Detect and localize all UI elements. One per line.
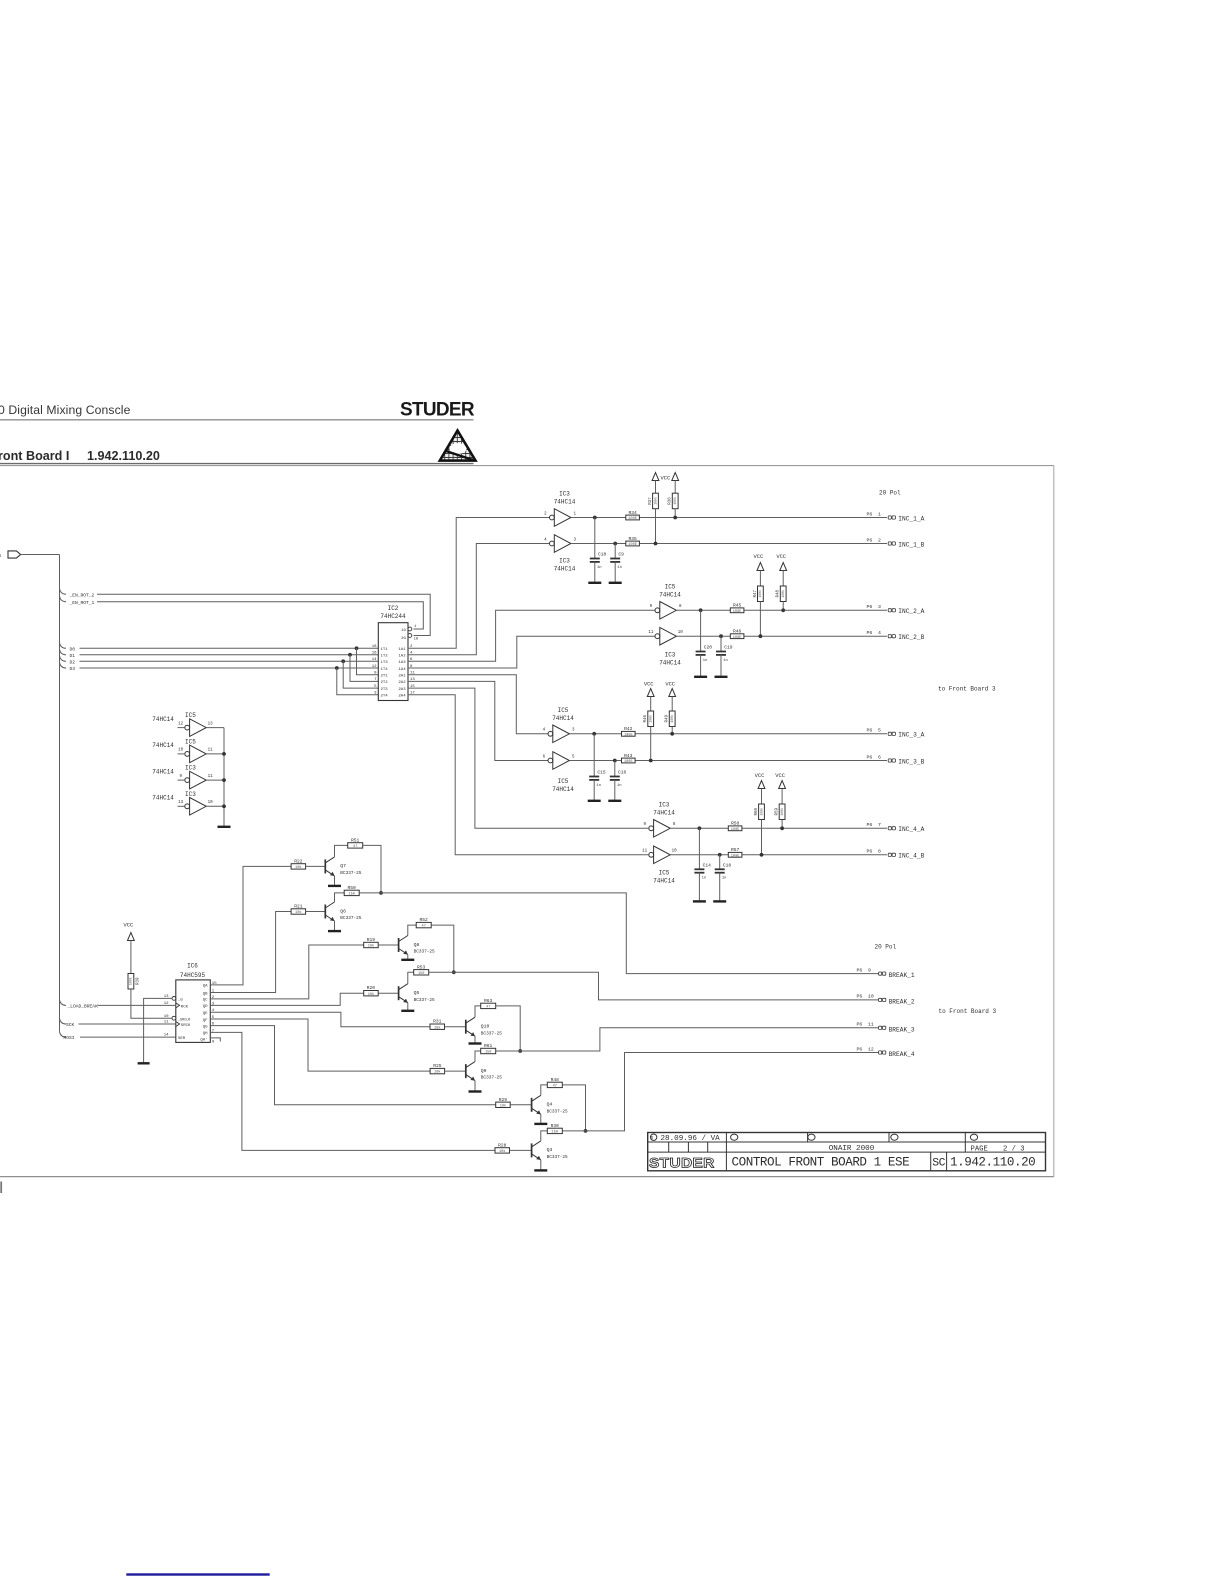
wire _LOAD_BREAK to RCK xyxy=(98,1004,176,1006)
wire R19 to base of Q8 xyxy=(378,944,398,946)
svg-text:VCC: VCC xyxy=(754,554,764,560)
wire BREAK_3 node to connector xyxy=(496,1028,879,1051)
svg-text:BC337-25: BC337-25 xyxy=(547,1109,568,1114)
svg-text:R34: R34 xyxy=(628,510,637,516)
resistor R34 100E in line INC_1_A xyxy=(626,515,640,520)
wire R22 to base of Q7 xyxy=(306,865,326,867)
svg-text:IC3: IC3 xyxy=(185,765,196,772)
wire _EN_ROT_1 to IC2 1G xyxy=(97,602,423,629)
resistor R51 47 collector of Q7 xyxy=(348,843,363,848)
svg-text:P6: P6 xyxy=(867,822,873,828)
wire IC6 QH to R28 xyxy=(210,1032,495,1150)
svg-text:20 Pol: 20 Pol xyxy=(875,944,897,951)
svg-text:R30: R30 xyxy=(551,1123,560,1129)
svg-text:BC337-25: BC337-25 xyxy=(481,1031,502,1036)
svg-text:1.942.110.20: 1.942.110.20 xyxy=(87,449,160,463)
svg-text:QH: QH xyxy=(203,1032,208,1036)
resistor R19 10k base of Q8 xyxy=(364,942,379,947)
svg-text:47: 47 xyxy=(422,925,426,929)
wire R51 down to break node xyxy=(363,845,381,893)
svg-text:R61: R61 xyxy=(484,1043,493,1049)
wire IC6 QG to R29 xyxy=(210,1026,495,1105)
svg-text:1n: 1n xyxy=(702,877,707,881)
svg-text:IC5: IC5 xyxy=(558,778,569,785)
svg-text:IC5: IC5 xyxy=(659,870,670,877)
transistor Q4 BC337-25 xyxy=(531,1098,533,1112)
svg-text:100E: 100E xyxy=(624,733,633,737)
svg-text:10k: 10k xyxy=(368,944,374,949)
svg-text:1A4: 1A4 xyxy=(398,668,406,672)
svg-text:_G: _G xyxy=(177,999,183,1003)
svg-text:74HC14: 74HC14 xyxy=(552,715,574,722)
resistor R45 100E in line INC_2_A xyxy=(730,608,744,613)
svg-text:INC_3_A: INC_3_A xyxy=(898,732,924,739)
resistor R31 10k base of Q10 xyxy=(430,1024,445,1029)
svg-text:Q7: Q7 xyxy=(340,863,346,869)
svg-text:2G: 2G xyxy=(401,637,406,641)
wire IC2 1A2 output to gate IC3b input (INC_1_B) xyxy=(408,544,550,655)
title block revision cells row1 xyxy=(807,1133,809,1143)
svg-text:10: 10 xyxy=(208,801,214,805)
junction cap C9 on line B xyxy=(613,542,617,546)
VCC arrow left group 1 xyxy=(652,473,659,481)
wire IC2 1A1 output to gate IC3a input (INC_1_A) xyxy=(408,518,550,649)
svg-text:BREAK_3: BREAK_3 xyxy=(889,1026,915,1033)
wire collector Q10 to R63 xyxy=(475,1006,481,1017)
svg-text:74HC14: 74HC14 xyxy=(152,742,174,749)
svg-text:Q3: Q3 xyxy=(547,1147,553,1153)
svg-text:5: 5 xyxy=(878,728,881,734)
connector pad P6_4 xyxy=(888,635,891,638)
svg-text:R58: R58 xyxy=(731,821,740,827)
resistor R36 100k pull-up INC_1_A xyxy=(672,493,678,509)
bus tap _EN_ROT_2 xyxy=(60,589,67,595)
svg-text:1n: 1n xyxy=(597,566,602,570)
wire R63 down to break node xyxy=(496,1006,521,1051)
wire R21 to base of Q6 xyxy=(306,911,326,913)
resistor R52 47 collector of Q8 xyxy=(416,922,431,927)
svg-text:C10: C10 xyxy=(598,552,607,558)
wire pull-up R48 to line A xyxy=(782,602,784,611)
svg-text:RCK: RCK xyxy=(181,1005,189,1009)
wire INC_3_B line gate output to connector xyxy=(569,760,887,762)
svg-text:_LOAD_BREAK: _LOAD_BREAK xyxy=(67,1004,99,1010)
svg-text:BC337-25: BC337-25 xyxy=(481,1076,502,1081)
svg-text:10k: 10k xyxy=(295,910,301,915)
svg-text:R53: R53 xyxy=(417,964,426,970)
svg-text:11: 11 xyxy=(642,850,648,854)
svg-text:74HC14: 74HC14 xyxy=(152,716,174,723)
wire pull-up R59 to line A xyxy=(781,820,783,829)
wire collector Q8 to R52 xyxy=(408,925,416,935)
svg-text:_SRCLR: _SRCLR xyxy=(177,1018,190,1022)
transistor Q10 BC337-25 xyxy=(465,1020,467,1034)
junction pull-up R60 line B xyxy=(760,853,764,857)
wire R48 down to break node xyxy=(562,1085,585,1131)
connector flag IIC input (left-cropped) xyxy=(8,551,21,558)
svg-text:ONAIR 2000: ONAIR 2000 xyxy=(829,1145,875,1153)
svg-text:74HC14: 74HC14 xyxy=(653,810,675,817)
ESD warning triangle symbol xyxy=(439,431,476,462)
svg-text:100k: 100k xyxy=(129,977,133,985)
connector pad P6_10 xyxy=(879,998,882,1001)
bus tap SCK xyxy=(60,1019,67,1025)
svg-text:to Front Board 3: to Front Board 3 xyxy=(939,1008,997,1015)
bus tap MOSI xyxy=(60,1032,67,1038)
svg-text:1n: 1n xyxy=(723,659,728,663)
connector pad P6_12 xyxy=(879,1051,882,1054)
svg-text:BREAK_1: BREAK_1 xyxy=(889,972,915,979)
IC6 pin 12 RCK clock input xyxy=(176,1003,180,1008)
svg-text:PAGE: PAGE xyxy=(971,1145,988,1153)
wire BREAK_1 node to connector xyxy=(359,893,878,974)
wire IC2 2A4 output to gate IC5d input (INC_4_B) xyxy=(408,695,648,855)
connector pad P6_6 xyxy=(888,759,891,762)
svg-text:to Front Board 3: to Front Board 3 xyxy=(938,686,996,693)
ground emitter Q3 xyxy=(540,1160,542,1170)
svg-text:3: 3 xyxy=(878,604,881,610)
resistor R39 100k pull-up _SRCLR xyxy=(128,974,134,990)
svg-text:6: 6 xyxy=(878,754,881,760)
wire IC6 QF to R25 xyxy=(210,1019,430,1071)
svg-text:100E: 100E xyxy=(628,517,637,521)
svg-text:1G: 1G xyxy=(401,629,406,633)
svg-text:P6: P6 xyxy=(857,994,863,1000)
svg-text:74HC14: 74HC14 xyxy=(659,660,681,667)
junction cap C14 on line A xyxy=(698,826,702,830)
junction spare rail 3 xyxy=(222,778,226,782)
svg-text:BC337-25: BC337-25 xyxy=(547,1155,568,1160)
VCC arrow right group 2 xyxy=(780,563,787,571)
ground emitter Q10 xyxy=(474,1036,476,1042)
wire R31 to base of Q10 xyxy=(445,1026,466,1028)
svg-text:74HC14: 74HC14 xyxy=(554,499,576,506)
connector pad P6_5 xyxy=(888,732,891,735)
svg-text:10k: 10k xyxy=(499,1149,505,1154)
svg-text:IC5: IC5 xyxy=(665,584,676,591)
svg-text:IC2: IC2 xyxy=(388,605,399,612)
svg-text:Q6: Q6 xyxy=(340,908,346,914)
inverter IC5 74HC14 channel INC_3_B xyxy=(548,758,553,763)
resistor R25 10k base of Q9 xyxy=(430,1068,445,1073)
svg-text:QA: QA xyxy=(203,985,208,989)
svg-text:100k: 100k xyxy=(649,715,653,723)
svg-text:R31: R31 xyxy=(433,1019,442,1025)
svg-text:9: 9 xyxy=(868,967,871,973)
svg-text:MOSI: MOSI xyxy=(64,1035,75,1041)
wire R52 down to break node xyxy=(431,925,454,972)
wire pull-up R37 to line B xyxy=(655,509,657,544)
svg-text:1: 1 xyxy=(878,511,881,517)
svg-text:1n: 1n xyxy=(596,784,601,788)
resistor R43 100E in line INC_3_B xyxy=(622,758,636,763)
transistor Q9 BC337-25 xyxy=(465,1064,467,1078)
svg-text:QE: QE xyxy=(203,1012,208,1016)
wire IC6 QB to R21 xyxy=(210,912,291,993)
schematic sheet frame right edge xyxy=(1053,466,1055,1177)
svg-text:1T1: 1T1 xyxy=(381,648,389,652)
svg-text:150: 150 xyxy=(485,1051,491,1055)
svg-text:R48: R48 xyxy=(551,1077,560,1083)
svg-text:R22: R22 xyxy=(294,858,303,864)
resistor R46 100E in line INC_2_B xyxy=(730,634,744,639)
svg-text:100k: 100k xyxy=(758,590,762,598)
svg-text:100E: 100E xyxy=(733,636,742,640)
junction D1 tap xyxy=(348,653,352,657)
capacitor C16 1n xyxy=(614,761,616,777)
schematic sheet frame bottom edge xyxy=(0,1176,1054,1178)
wire R20 to base of Q5 xyxy=(378,992,398,994)
resistor R47 100k pull-up INC_2_B xyxy=(758,586,764,602)
svg-text:10: 10 xyxy=(672,850,678,854)
svg-text:R51: R51 xyxy=(351,837,360,843)
svg-text:IC5: IC5 xyxy=(185,738,196,745)
wire D3 to IC2 1T4 xyxy=(80,667,379,669)
svg-text:10k: 10k xyxy=(368,992,374,997)
wire D3 branch to 2T4 xyxy=(337,668,379,695)
svg-text:P6: P6 xyxy=(857,967,863,973)
resistor R61 150 collector of Q9 xyxy=(481,1048,496,1053)
svg-text:2A2: 2A2 xyxy=(398,681,406,685)
svg-text:INC_4_B: INC_4_B xyxy=(898,853,924,860)
svg-text:QH': QH' xyxy=(200,1037,207,1042)
svg-text:STUDER: STUDER xyxy=(400,399,475,420)
schematic sheet frame top edge xyxy=(0,465,1054,467)
transistor Q5 BC337-25 xyxy=(398,986,400,1000)
wire D0 branch to 2T1 xyxy=(357,648,379,674)
svg-text:8: 8 xyxy=(878,849,881,855)
wire collector Q5 to R53 xyxy=(408,972,414,983)
svg-text:2T1: 2T1 xyxy=(381,675,389,679)
junction break node Q8 xyxy=(452,970,456,974)
svg-text:R25: R25 xyxy=(433,1063,442,1069)
wire D2 to IC2 1T3 xyxy=(80,660,379,662)
svg-text:BREAK_2: BREAK_2 xyxy=(889,999,915,1006)
svg-text:INC_3_B: INC_3_B xyxy=(898,758,924,765)
inverter IC5 74HC14 channel INC_4_B xyxy=(649,852,654,857)
svg-text:100k: 100k xyxy=(759,808,763,816)
svg-text:100E: 100E xyxy=(733,610,742,614)
svg-text:150: 150 xyxy=(552,1131,558,1135)
resistor R48 100k pull-up INC_2_A xyxy=(780,586,786,602)
junction cap C19 on line B xyxy=(719,634,723,638)
svg-text:74HC14: 74HC14 xyxy=(152,795,174,802)
svg-text:10k: 10k xyxy=(295,865,301,870)
resistor R46 100k pull-up INC_3_B xyxy=(648,711,654,727)
svg-text:R52: R52 xyxy=(420,917,429,923)
svg-text:Q5: Q5 xyxy=(414,990,420,996)
transistor Q3 BC337-25 xyxy=(531,1143,533,1157)
capacitor C20 1n xyxy=(700,610,702,651)
wire collector Q4 to R48 xyxy=(541,1085,548,1095)
svg-text:INC_4_A: INC_4_A xyxy=(898,826,924,833)
title block frame xyxy=(648,1133,1046,1171)
svg-text:_EN_ROT_2: _EN_ROT_2 xyxy=(69,592,95,598)
resistor R49 100k pull-up INC_3_A xyxy=(669,711,675,727)
svg-text:1n: 1n xyxy=(703,659,708,663)
svg-text:P6: P6 xyxy=(867,511,873,517)
svg-text:R50: R50 xyxy=(348,885,357,891)
svg-text:R46: R46 xyxy=(733,629,742,635)
junction pull-up R59 line A xyxy=(780,826,784,830)
junction cap C15 on line A xyxy=(592,732,596,736)
svg-text:SER: SER xyxy=(178,1037,186,1041)
svg-text:16: 16 xyxy=(372,652,377,656)
svg-text:2T4: 2T4 xyxy=(381,695,389,699)
wire IC6 QD to R20 xyxy=(210,993,363,1005)
resistor R53 150 collector of Q5 xyxy=(414,970,429,975)
junction spare rail 4 xyxy=(222,804,226,808)
wire pull-up R36 to line A xyxy=(674,509,676,518)
svg-text:74HC14: 74HC14 xyxy=(552,786,574,793)
header rule under title xyxy=(0,419,474,421)
wire IC2 2A3 output to gate IC3d input (INC_4_A) xyxy=(408,688,648,828)
transistor Q8 BC337-25 xyxy=(398,938,400,952)
svg-text:2T3: 2T3 xyxy=(381,688,389,692)
bus tap _LOAD_BREAK xyxy=(60,1000,67,1006)
resistor R35 100E in line INC_1_B xyxy=(626,541,640,546)
svg-text:IC3: IC3 xyxy=(559,558,570,565)
svg-text:18: 18 xyxy=(372,645,377,649)
bus tap D3 xyxy=(60,663,67,669)
wire pull-up R47 to line B xyxy=(759,602,761,637)
svg-text:1n: 1n xyxy=(617,784,622,788)
svg-text:P6: P6 xyxy=(867,537,873,543)
wire R39 to _SRCLR pin xyxy=(131,989,172,1018)
junction pull-up R49 line A xyxy=(670,732,674,736)
shift register IC6 74HC595 body xyxy=(176,980,211,1043)
svg-text:10: 10 xyxy=(178,749,184,753)
wire pull-up R60 to line B xyxy=(761,820,763,855)
junction spare rail 2 xyxy=(222,752,226,756)
resistor R57 100E in line INC_4_B xyxy=(728,852,742,857)
ground IC6 _G xyxy=(138,1062,150,1064)
wire IC6 QE to R31 xyxy=(210,1012,430,1026)
svg-text:C16: C16 xyxy=(618,770,627,776)
inverter IC3 74HC14 channel INC_2_B xyxy=(655,634,660,639)
svg-text:P6: P6 xyxy=(867,728,873,734)
svg-text:2: 2 xyxy=(878,537,881,543)
wire R28 to base of Q3 xyxy=(510,1149,532,1151)
svg-text:INC_1_A: INC_1_A xyxy=(898,515,924,522)
svg-text:SRCK: SRCK xyxy=(181,1024,191,1028)
svg-text:13: 13 xyxy=(208,722,214,726)
title block SC cell xyxy=(930,1152,932,1171)
capacitor C18 1n xyxy=(719,855,721,870)
ground emitter Q5 xyxy=(407,1003,409,1010)
svg-text:100E: 100E xyxy=(624,760,633,764)
svg-text:QD: QD xyxy=(203,1005,208,1009)
svg-text:C15: C15 xyxy=(597,770,606,776)
title block small cells row2 xyxy=(668,1142,670,1152)
svg-text:INC_1_B: INC_1_B xyxy=(898,541,924,548)
capacitor C15 1n xyxy=(593,734,595,777)
svg-text:BC337-25: BC337-25 xyxy=(340,916,361,921)
transistor Q6 BC337-25 xyxy=(324,905,326,919)
junction break node Q4 xyxy=(584,1129,588,1133)
wire collector Q6 to R50 xyxy=(335,893,345,902)
svg-text:Q9: Q9 xyxy=(481,1068,487,1074)
svg-text:47: 47 xyxy=(553,1085,557,1089)
bold rule under subtitle xyxy=(0,463,474,465)
ground emitter Q4 xyxy=(540,1114,542,1123)
bus tap D1 xyxy=(60,649,67,655)
svg-text:IC3: IC3 xyxy=(559,491,570,498)
svg-text:2A1: 2A1 xyxy=(398,675,406,679)
VCC arrow left group 2 xyxy=(757,563,764,571)
wire INC_2_A line gate output to connector xyxy=(676,609,887,611)
svg-text:P6: P6 xyxy=(867,604,873,610)
sheet margin tick bottom-left xyxy=(0,1182,2,1194)
svg-text:VCC: VCC xyxy=(660,476,670,482)
wire D1 to IC2 1T2 xyxy=(80,654,379,656)
svg-text:D1: D1 xyxy=(70,653,76,659)
svg-text:100k: 100k xyxy=(653,497,657,505)
svg-text:1T2: 1T2 xyxy=(381,655,389,659)
wire _G pin to ground xyxy=(144,998,172,1062)
resistor R37 100k pull-up INC_1_B xyxy=(653,493,659,509)
transistor Q7 BC337-25 xyxy=(324,859,326,873)
svg-text:12: 12 xyxy=(372,665,377,669)
svg-text:D2: D2 xyxy=(70,659,76,665)
bus tap D0 xyxy=(60,643,67,649)
IC6 pin 13 _G input bubble xyxy=(172,997,176,1001)
svg-text:74HC14: 74HC14 xyxy=(152,768,174,775)
svg-text:R28: R28 xyxy=(498,1142,507,1148)
svg-text:11: 11 xyxy=(208,749,214,753)
svg-text:100k: 100k xyxy=(781,590,785,598)
svg-text:C20: C20 xyxy=(704,645,713,651)
svg-text:2A3: 2A3 xyxy=(398,688,406,692)
junction D3 tap xyxy=(335,666,339,670)
capacitor C19 1n xyxy=(720,636,722,651)
junction pull-up R47 line B xyxy=(759,634,763,638)
wire IC2 2A1 output to gate IC5b input (INC_3_A) xyxy=(408,675,548,734)
svg-text:100k: 100k xyxy=(780,808,784,816)
wire INC_1_B line gate output to connector xyxy=(571,543,887,545)
resistor R21 10k base of Q6 xyxy=(291,909,306,914)
inverter IC3 74HC14 channel INC_1_B xyxy=(550,541,555,546)
svg-text:BC337-25: BC337-25 xyxy=(414,998,435,1003)
resistor R20 10k base of Q5 xyxy=(364,991,379,996)
svg-text:Q4: Q4 xyxy=(547,1102,553,1108)
svg-text:11: 11 xyxy=(208,775,214,779)
svg-text:R63: R63 xyxy=(484,998,493,1004)
resistor R29 10k base of Q4 xyxy=(496,1102,511,1107)
VCC arrow left group 3 xyxy=(647,689,654,697)
buffer IC2 74HC244 body xyxy=(378,623,408,701)
title block date cell xyxy=(650,1134,656,1140)
wire R25 to base of Q9 xyxy=(445,1070,466,1072)
VCC arrow right group 1 xyxy=(672,473,679,481)
svg-text:D0: D0 xyxy=(70,646,76,652)
wire D0 to IC2 1T1 xyxy=(80,647,379,649)
svg-text:VCC: VCC xyxy=(775,773,785,779)
junction cap C16 on line B xyxy=(613,759,617,763)
svg-text:1.942.110.20: 1.942.110.20 xyxy=(950,1155,1035,1169)
svg-text:D3: D3 xyxy=(70,666,76,672)
IC2 enable bubble 2G pin 19 xyxy=(408,634,412,638)
svg-text:Q8: Q8 xyxy=(414,942,420,948)
svg-text:QF: QF xyxy=(203,1019,208,1023)
wire INC_1_A line gate output to connector xyxy=(571,517,887,519)
svg-text:BC337-25: BC337-25 xyxy=(414,950,435,955)
svg-text:74HC14: 74HC14 xyxy=(554,566,576,573)
svg-text:100k: 100k xyxy=(670,715,674,723)
svg-text:CONTROL FRONT BOARD 1 ESE: CONTROL FRONT BOARD 1 ESE xyxy=(732,1155,910,1169)
wire IC2 2A2 output to gate IC5c input (INC_3_B) xyxy=(408,681,548,760)
svg-text:BREAK_4: BREAK_4 xyxy=(889,1051,915,1058)
